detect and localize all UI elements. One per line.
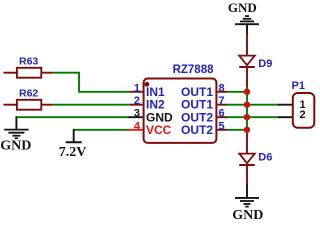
power 7.2V xyxy=(59,129,87,160)
op IC U? RZ7888 xyxy=(144,64,217,143)
svg-text:GND: GND xyxy=(228,0,257,15)
svg-text:R62: R62 xyxy=(19,88,38,100)
svg-text:3: 3 xyxy=(134,108,140,120)
svg-text:7.2V: 7.2V xyxy=(59,145,87,160)
wire R63 to pin1 xyxy=(53,73,131,92)
wire pin6 to P1 pin2 xyxy=(227,116,279,118)
pin 4 xyxy=(129,129,143,131)
svg-text:OUT2: OUT2 xyxy=(181,123,213,137)
wire GND to pin3 xyxy=(16,116,129,118)
pin 3 xyxy=(129,116,143,118)
junction dot pin7 xyxy=(244,101,251,108)
junction dot pin6 xyxy=(244,114,251,121)
ground GND left xyxy=(0,116,31,153)
resistor R63 xyxy=(4,56,53,78)
svg-text:7: 7 xyxy=(219,95,225,107)
resistor R62 xyxy=(4,88,53,110)
svg-text:2: 2 xyxy=(300,109,306,121)
wire pin5 to bus xyxy=(227,129,247,131)
junction dot pin5 xyxy=(244,127,251,134)
svg-text:GND: GND xyxy=(0,138,31,153)
connector P1 xyxy=(292,80,315,128)
svg-text:P1: P1 xyxy=(292,80,305,92)
svg-text:R63: R63 xyxy=(19,56,38,68)
diode D9 xyxy=(239,34,272,88)
svg-text:D6: D6 xyxy=(258,152,272,164)
wire pin8 to bus xyxy=(227,91,247,93)
svg-text:RZ7888: RZ7888 xyxy=(173,64,215,76)
svg-text:2: 2 xyxy=(134,95,140,107)
pin 6 xyxy=(217,116,227,118)
svg-text:8: 8 xyxy=(219,82,225,94)
svg-text:GND: GND xyxy=(232,208,263,221)
wire vertical bus xyxy=(246,86,248,135)
pin 5 xyxy=(217,129,227,131)
svg-text:D9: D9 xyxy=(258,58,272,70)
svg-text:IN1: IN1 xyxy=(146,85,165,99)
wire 7.2V to pin4 xyxy=(74,129,129,131)
pin 1 xyxy=(130,91,143,93)
pin 8 xyxy=(217,91,227,93)
svg-text:1: 1 xyxy=(134,82,140,94)
diode D6 xyxy=(239,134,272,184)
svg-text:5: 5 xyxy=(219,120,225,132)
pin 7 xyxy=(217,104,227,106)
svg-text:4: 4 xyxy=(134,120,141,132)
svg-text:VCC: VCC xyxy=(146,123,172,137)
ground GND bottom xyxy=(232,184,263,223)
pin 2 xyxy=(130,104,143,106)
svg-text:OUT1: OUT1 xyxy=(181,85,213,99)
junction dot pin8 xyxy=(244,89,251,96)
svg-text:6: 6 xyxy=(219,108,225,120)
wire pin7 to P1 pin1 xyxy=(227,104,279,106)
wire R62 to pin2 xyxy=(53,104,131,106)
wire P1 pin1 stub xyxy=(278,104,292,106)
ground GND top xyxy=(228,0,259,34)
wire P1 pin2 stub xyxy=(278,116,292,118)
